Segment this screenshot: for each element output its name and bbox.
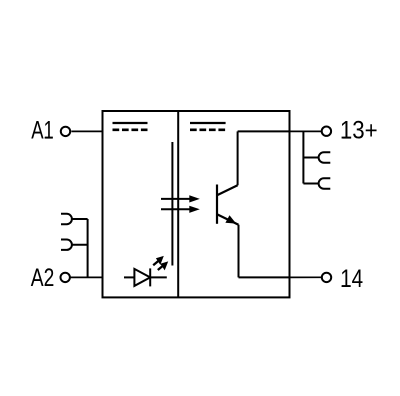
left clamp bus wire bbox=[87, 219, 89, 277]
phototransistor Q1 base bar bbox=[216, 185, 218, 224]
DC symbol left: solid bar bbox=[113, 122, 148, 124]
right clamp contact 2 bbox=[319, 178, 331, 188]
phototransistor Q1 collector wire up bbox=[237, 131, 239, 185]
terminal A2 circle bbox=[60, 273, 69, 282]
isolation divider (center line of box) bbox=[177, 111, 179, 297]
LED light arrow 1 head bbox=[156, 256, 164, 265]
right clamp bus wire bbox=[302, 131, 304, 183]
right clamp contact 1 bbox=[319, 152, 331, 162]
LED D1 cathode bar bbox=[149, 268, 151, 286]
phototransistor Q1 emitter diagonal bbox=[217, 214, 239, 224]
label A1 digit-1 foot serif bbox=[45, 137, 53, 139]
svg-text:A1: A1 bbox=[31, 116, 54, 144]
module body box bbox=[103, 111, 290, 297]
svg-text:A2: A2 bbox=[31, 263, 55, 291]
LED light arrow 1 shaft bbox=[153, 261, 158, 266]
optocoupler arrow 2 head bbox=[189, 206, 200, 213]
LED D1 cathode wire bbox=[150, 276, 167, 278]
terminal 14 circle bbox=[322, 273, 331, 282]
svg-text:14: 14 bbox=[340, 264, 363, 292]
terminal 13+ circle bbox=[322, 127, 331, 136]
wire A1 to box bbox=[71, 130, 102, 132]
wire bus to right clamp1 bbox=[303, 157, 318, 159]
left clamp contact 2 bbox=[61, 240, 72, 250]
wire clamp2 to bus bbox=[72, 244, 88, 246]
label 14 digit-1 foot serif bbox=[342, 285, 350, 287]
wire emitter to 14 bbox=[239, 276, 290, 278]
wire collector to 13+ bbox=[238, 130, 290, 132]
wire A2 to box bbox=[70, 276, 102, 278]
phototransistor Q1 emitter arrowhead bbox=[225, 215, 236, 223]
LED light arrow 2 shaft bbox=[158, 266, 163, 271]
phototransistor Q1 collector diagonal bbox=[217, 185, 238, 195]
DC symbol left: dashed bar bbox=[113, 129, 148, 132]
label 13+ digit-1 foot serif bbox=[343, 137, 351, 139]
LED D1 anode wire bbox=[124, 276, 134, 278]
wire 13+ to box bbox=[290, 130, 322, 132]
LED D1 triangle bbox=[134, 269, 150, 286]
wire bus to right clamp2 bbox=[303, 183, 318, 185]
terminal A1 circle bbox=[61, 127, 70, 136]
wire clamp1 to bus bbox=[72, 218, 88, 220]
LED light arrow 2 head bbox=[160, 261, 168, 270]
wire 14 to box bbox=[290, 276, 322, 278]
svg-text:13+: 13+ bbox=[340, 117, 378, 144]
isolation barrier line bbox=[171, 142, 173, 266]
phototransistor Q1 emitter wire down bbox=[238, 225, 240, 278]
DC symbol right: solid bar bbox=[190, 122, 226, 124]
left clamp contact 1 bbox=[61, 214, 72, 224]
optocoupler arrow 1 shaft bbox=[161, 198, 191, 200]
DC symbol right: dashed bar bbox=[190, 129, 226, 132]
optocoupler arrow 2 shaft bbox=[161, 208, 191, 210]
optocoupler arrow 1 head bbox=[189, 195, 200, 202]
